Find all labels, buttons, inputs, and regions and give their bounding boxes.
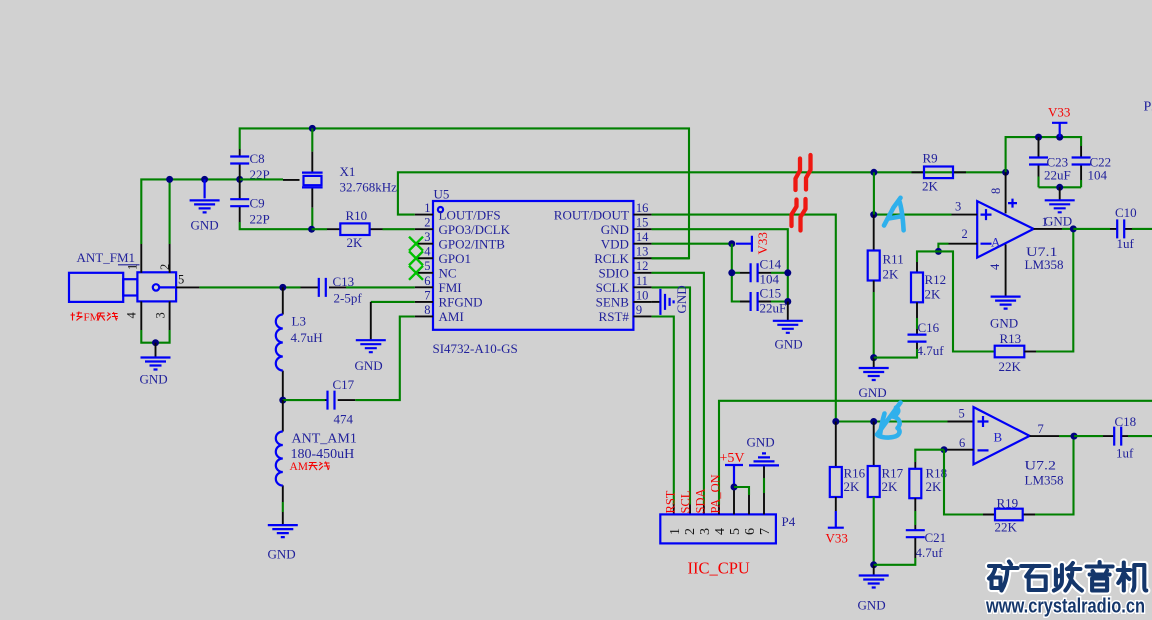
svg-text:RST#: RST# — [599, 309, 630, 324]
wire feedback to R13 — [938, 251, 994, 351]
svg-text:22P: 22P — [250, 212, 270, 227]
svg-text:U5: U5 — [434, 187, 450, 202]
wire inverting input U7.1 — [938, 244, 977, 252]
svg-text:1uf: 1uf — [1117, 236, 1135, 251]
svg-text:2K: 2K — [925, 287, 942, 302]
svg-text:SI4732-A10-GS: SI4732-A10-GS — [433, 341, 518, 356]
wire C16 to ground node — [874, 349, 917, 358]
resistor R18 — [909, 462, 921, 511]
svg-text:www.crystalradio.cn: www.crystalradio.cn — [985, 596, 1145, 618]
svg-text:L3: L3 — [292, 314, 306, 329]
capacitor C18 — [1103, 427, 1128, 446]
junction node C8/C9 at x239.7 — [236, 176, 243, 183]
wire FM ant pins3,4 to ground — [141, 330, 169, 343]
svg-text:ANT_AM1: ANT_AM1 — [292, 432, 357, 447]
ground symbol on FM node — [190, 179, 220, 212]
svg-text:A: A — [991, 235, 1001, 250]
svg-text:GND: GND — [140, 372, 168, 387]
C17 designator — [333, 377, 355, 392]
C23 designator — [1047, 155, 1069, 170]
svg-text:1: 1 — [668, 528, 683, 535]
svg-text:22uF: 22uF — [1044, 168, 1071, 183]
svg-text:22K: 22K — [999, 359, 1022, 374]
wire FM ant pins1,2 to C8/C9 node — [141, 179, 239, 244]
stub wire from C8/C9 node toward crystal — [240, 178, 300, 181]
svg-text:2K: 2K — [926, 479, 943, 494]
svg-text:2K: 2K — [883, 267, 900, 282]
R17 designator — [882, 466, 904, 481]
svg-text:2K: 2K — [922, 179, 939, 194]
wire ANT_AM1 to ground — [282, 502, 284, 525]
wire node to R18 — [915, 450, 944, 462]
svg-text:6: 6 — [424, 274, 430, 288]
svg-text:X1: X1 — [340, 164, 356, 179]
red note text 接FM天线 — [71, 312, 119, 324]
svg-text:RST: RST — [664, 490, 678, 513]
GND label at RFGND — [355, 358, 383, 373]
junction node R12/feedback — [935, 248, 942, 255]
svg-text:C17: C17 — [333, 377, 355, 392]
wire output to C18 — [1074, 435, 1103, 437]
ANT_FM1 pin1 lead up — [140, 244, 142, 273]
connector P4 body — [660, 514, 776, 543]
svg-text:VDD: VDD — [601, 236, 629, 251]
svg-text:4: 4 — [125, 312, 139, 319]
R9 designator — [923, 151, 938, 166]
junction node A input — [870, 211, 877, 218]
U5 part value label SI4732-A10-GS — [433, 341, 518, 356]
ANT_FM1 pin2 lead up — [169, 244, 171, 273]
no-connect X marks on U5 pins 3,4,5 — [409, 237, 423, 280]
junction node opamp V+ supply — [1002, 169, 1009, 176]
C18 designator — [1115, 414, 1137, 429]
power symbol +5V at P4 pin5 — [725, 465, 743, 485]
C8 value 22P — [250, 167, 270, 182]
svg-text:3: 3 — [424, 230, 430, 244]
junction node gnd rail C15 — [784, 298, 791, 305]
svg-text:+5V: +5V — [720, 451, 745, 466]
svg-text:C10: C10 — [1115, 205, 1137, 220]
svg-text:2-5pf: 2-5pf — [334, 291, 363, 306]
wire V+ node to C23/C22/V33 — [1006, 137, 1082, 172]
C10 value 1uf — [1117, 236, 1135, 251]
svg-text:B: B — [994, 430, 1003, 445]
svg-text:SENB: SENB — [596, 295, 630, 310]
wire inverting input U7.2 — [944, 449, 974, 451]
wire C23/C22 bottoms to ground — [1039, 186, 1082, 188]
U5 designator label — [434, 187, 450, 202]
svg-text:16: 16 — [636, 201, 649, 215]
svg-text:8: 8 — [424, 303, 430, 317]
junction node LOUT wire at x873.9 — [870, 169, 877, 176]
ground symbol under R11 — [859, 358, 889, 380]
C13 value 2-5pf — [334, 291, 363, 306]
svg-text:NC: NC — [439, 266, 457, 281]
capacitor C9 — [230, 179, 249, 222]
net label SDA (rotated red) — [694, 488, 708, 513]
red break mark on LOUT wire — [796, 155, 811, 190]
svg-text:SCLK: SCLK — [596, 280, 630, 295]
U7.1 part LM358 — [1025, 257, 1064, 272]
svg-text:2: 2 — [683, 528, 698, 535]
C14 value 104 — [760, 272, 780, 287]
svg-text:R11: R11 — [883, 252, 904, 267]
svg-text:GPO3/DCLK: GPO3/DCLK — [439, 222, 511, 237]
junction node on y179 wire at x169.6 — [166, 176, 173, 183]
inverted ground symbol above P4 pin7 — [749, 453, 779, 465]
op-amp U7.2 — [974, 407, 1030, 464]
R13 designator — [1000, 331, 1022, 346]
svg-text:104: 104 — [1088, 168, 1108, 183]
GND label under ANT_AM1 — [268, 547, 296, 562]
wire LOUT node down to A input — [873, 172, 875, 214]
watermark url www.crystalradio.cn — [985, 596, 1145, 618]
wire C14/C15 right plates to gnd rail — [771, 273, 788, 302]
svg-text:5: 5 — [959, 407, 965, 421]
junction node FM/L3 — [279, 284, 286, 291]
svg-text:P4: P4 — [782, 514, 796, 529]
GND label under R17 — [858, 598, 886, 613]
svg-text:6: 6 — [959, 436, 965, 450]
U7.1 pin4 number (rotated) — [988, 263, 1002, 270]
junction node R17/C21 gnd — [870, 561, 877, 568]
R11 value 2K — [883, 267, 900, 282]
GND label under R11 — [859, 385, 887, 400]
resistor R10 — [327, 223, 383, 235]
GND label above P4 pin7 — [747, 435, 775, 450]
U7.1 pin2 number — [962, 227, 968, 241]
C16 value 4.7uf — [917, 343, 945, 358]
svg-text:1: 1 — [1042, 215, 1048, 229]
GND label under C23/C22 — [1044, 214, 1072, 229]
C13 designator — [333, 274, 355, 289]
svg-text:R13: R13 — [1000, 331, 1022, 346]
C22 value 104 — [1088, 168, 1108, 183]
V33 label at VDD (rotated) — [755, 232, 770, 254]
svg-text:2K: 2K — [882, 479, 899, 494]
svg-text:C18: C18 — [1115, 414, 1137, 429]
svg-text:7: 7 — [424, 288, 430, 302]
junction node U7.1 output — [1070, 225, 1077, 232]
ground symbol under C14/C15 — [773, 302, 803, 333]
GND label under ANT_FM1 — [140, 372, 168, 387]
svg-text:FM: FM — [84, 312, 100, 324]
junction node V33 stem — [1056, 134, 1063, 141]
wire R11 to ground node — [873, 292, 875, 358]
inductor ANT_AM1 — [276, 400, 283, 502]
junction node R17 top — [870, 418, 877, 425]
svg-text:SDA: SDA — [694, 488, 708, 513]
junction node VDD — [728, 240, 735, 247]
C10 designator — [1115, 205, 1137, 220]
svg-text:R19: R19 — [997, 496, 1019, 511]
svg-text:GND: GND — [747, 435, 775, 450]
svg-text:R9: R9 — [923, 151, 938, 166]
junction node U7.2 output — [1071, 433, 1078, 440]
wire U5 pin13 RCLK — [652, 257, 689, 259]
ground symbol at U7.1 pin4 — [991, 297, 1021, 309]
junction node crystal-top on top wire — [309, 125, 316, 132]
net label RST (rotated red) — [664, 490, 678, 513]
junction node C23 top — [1035, 134, 1042, 141]
svg-text:LOUT/DFS: LOUT/DFS — [439, 207, 501, 222]
U7.2 part LM358 — [1025, 473, 1064, 488]
svg-text:V33: V33 — [1048, 105, 1070, 120]
capacitor C23 — [1029, 137, 1048, 187]
wire U5 pin7 RFGND to ground — [371, 302, 415, 340]
svg-text:4: 4 — [713, 528, 728, 535]
svg-text:8: 8 — [989, 188, 1003, 194]
P4 pin7 stub — [763, 466, 765, 515]
resistor R19 — [983, 509, 1035, 521]
svg-text:2K: 2K — [347, 235, 364, 250]
wire U5 pin14 VDD to V33 — [652, 243, 732, 245]
svg-text:4.7uH: 4.7uH — [291, 330, 323, 345]
R18 value 2K — [926, 479, 943, 494]
L3 designator — [292, 314, 306, 329]
U7.2 designator — [1025, 458, 1057, 473]
ANT_FM1 pin4 lead down — [140, 301, 142, 330]
svg-text:6: 6 — [743, 528, 758, 535]
svg-text:474: 474 — [334, 412, 354, 427]
svg-text:AM: AM — [290, 461, 309, 473]
capacitor C13 — [301, 278, 347, 297]
svg-text:5: 5 — [178, 273, 184, 287]
C15 value 22uF — [760, 301, 787, 316]
U7.2 pin6 number — [959, 436, 965, 450]
red note text AM天线 — [290, 461, 331, 473]
C22 designator — [1090, 155, 1112, 170]
power symbol V33 at VDD (rotated) — [736, 236, 752, 252]
junction node C14 left — [728, 269, 735, 276]
R17 value 2K — [882, 479, 899, 494]
ANT_FM1 pin numbers — [125, 264, 185, 319]
svg-text:C14: C14 — [760, 257, 782, 272]
svg-text:V33: V33 — [826, 531, 848, 546]
svg-text:C15: C15 — [760, 286, 782, 301]
svg-text:7: 7 — [758, 528, 773, 535]
C14 designator — [760, 257, 782, 272]
R19 designator — [997, 496, 1019, 511]
power symbol V33 under R16 (inverted) — [828, 511, 844, 528]
svg-text:3: 3 — [698, 528, 713, 535]
svg-text:15: 15 — [636, 216, 649, 230]
svg-text:GND: GND — [601, 222, 629, 237]
wire C10 to right edge — [1132, 228, 1152, 230]
resistor R13 — [995, 346, 1036, 358]
wire node to R12 — [917, 251, 938, 262]
svg-text:IIC_CPU: IIC_CPU — [688, 559, 750, 578]
svg-text:4: 4 — [988, 263, 1002, 270]
svg-text:P2: P2 — [1144, 100, 1152, 115]
svg-text:LM358: LM358 — [1025, 473, 1064, 488]
P4 pin numbers 1-7 (rotated) — [668, 528, 773, 535]
wire ANT_FM1 pin5 to C13 and FMI — [199, 286, 414, 288]
C9 designator — [250, 196, 265, 211]
svg-text:22K: 22K — [995, 520, 1018, 535]
svg-text:10: 10 — [636, 288, 649, 302]
svg-text:3: 3 — [955, 200, 961, 214]
svg-text:9: 9 — [636, 303, 642, 317]
wire C18 to right edge — [1128, 435, 1152, 437]
R10 value 2K — [347, 235, 364, 250]
svg-text:AMI: AMI — [439, 309, 464, 324]
inductor L3 — [276, 287, 283, 400]
V33 label under R16 — [826, 531, 848, 546]
ANT_FM1 pin5 lead — [176, 286, 199, 288]
R10 designator — [346, 208, 368, 223]
junction node L3/C17/AM — [279, 397, 286, 404]
svg-text:7: 7 — [1038, 422, 1044, 436]
V33 label top right — [1048, 105, 1070, 120]
svg-text:V33: V33 — [755, 232, 770, 254]
net label SCL (rotated red) — [679, 491, 693, 514]
svg-text:GPO1: GPO1 — [439, 251, 472, 266]
C21 value 4.7uf — [916, 545, 944, 560]
U7.2 pin5 number — [959, 407, 965, 421]
svg-text:GPO2/INTB: GPO2/INTB — [439, 236, 506, 251]
junction node R16 top — [832, 418, 839, 425]
watermark Chinese logo (crystal radio) — [989, 562, 1146, 591]
ground symbol under C23/C22 — [1045, 187, 1075, 212]
svg-text:C21: C21 — [925, 530, 947, 545]
R11 designator — [883, 252, 904, 267]
U7.1 designator — [1026, 244, 1058, 259]
svg-text:R12: R12 — [925, 272, 947, 287]
capacitor C10 — [1110, 219, 1132, 238]
ANT_FM1 pin3 lead down — [169, 301, 171, 330]
capacitor C8 — [230, 149, 249, 179]
svg-text:4: 4 — [424, 245, 431, 259]
wire VDD branch down to C14/C15 — [732, 244, 740, 302]
wire U5 pin15 GND to decoupling caps — [652, 229, 788, 301]
svg-text:13: 13 — [636, 245, 649, 259]
svg-text:GND: GND — [191, 218, 219, 233]
ground symbol under ANT_FM1 — [141, 343, 171, 370]
svg-text:12: 12 — [636, 259, 649, 273]
R19 value 22K — [995, 520, 1018, 535]
X1 designator — [340, 164, 356, 179]
U7.1 pin3 number — [955, 200, 961, 214]
svg-text:5: 5 — [728, 528, 743, 535]
U7.1 pin1 number — [1042, 215, 1048, 229]
wire U5 pin1 LOUT to top-left corner — [398, 172, 1006, 214]
R13 value 22K — [999, 359, 1022, 374]
C23 value 22uF — [1044, 168, 1071, 183]
svg-text:ANT_FM1: ANT_FM1 — [77, 250, 136, 265]
junction node R10/crystal — [308, 226, 315, 233]
svg-text:32.768kHz: 32.768kHz — [340, 180, 398, 195]
U7.2 pin7 number — [1038, 422, 1044, 436]
IC U5 SI4732-A10-GS body — [433, 201, 633, 330]
GND label at U7.1 pin4 — [990, 316, 1018, 331]
wire R17 to gnd node — [873, 497, 875, 565]
X1 value 32.768kHz — [340, 180, 398, 195]
+5V label — [720, 451, 745, 466]
wire top net to RCLK — [240, 128, 689, 258]
crystal X1 bottom wire to node — [311, 208, 313, 229]
svg-text:R10: R10 — [346, 208, 368, 223]
svg-text:GND: GND — [775, 337, 803, 352]
svg-text:GND: GND — [1044, 214, 1072, 229]
svg-text:RFGND: RFGND — [439, 295, 483, 310]
R12 designator — [925, 272, 947, 287]
resistor R11 — [868, 215, 880, 292]
svg-text:C16: C16 — [918, 320, 940, 335]
svg-text:GND: GND — [990, 316, 1018, 331]
GND label for FM node ground — [191, 218, 219, 233]
svg-text:5: 5 — [424, 259, 430, 273]
svg-text:1uf: 1uf — [1116, 446, 1134, 461]
ANT_AM1 designator — [292, 432, 357, 447]
R12 value 2K — [925, 287, 942, 302]
svg-text:FMI: FMI — [439, 280, 462, 295]
GND label at SENB (rotated) — [674, 285, 689, 313]
power symbol V33 top right — [1052, 123, 1067, 137]
wire R12 to C16 — [916, 318, 918, 329]
svg-text:U7.2: U7.2 — [1025, 458, 1057, 473]
svg-text:SDIO: SDIO — [599, 266, 629, 281]
ground symbol at U5 pin10 SENB (rotated) — [652, 289, 674, 315]
R18 designator — [926, 466, 948, 481]
cyan handwritten B scribble — [877, 403, 901, 438]
svg-text:C9: C9 — [250, 196, 265, 211]
ANT_FM1 designator label — [77, 250, 140, 265]
svg-text:2K: 2K — [844, 479, 861, 494]
crystal X1 — [302, 128, 323, 207]
svg-text:GND: GND — [268, 547, 296, 562]
wire feedback to R19 — [944, 450, 983, 515]
ANT_AM1 value 180-450uH — [291, 447, 355, 462]
junction node R11/C16 gnd — [870, 354, 877, 361]
svg-text:RCLK: RCLK — [594, 251, 629, 266]
svg-text:GND: GND — [355, 358, 383, 373]
P2 partial label at right edge — [1144, 100, 1152, 115]
wire R18 to C21 — [914, 511, 916, 525]
svg-text:180-450uH: 180-450uH — [291, 447, 355, 462]
L3 value 4.7uH — [291, 330, 323, 345]
junction node caps gnd — [1056, 184, 1063, 191]
U7.1 pin8 number (rotated) — [989, 188, 1003, 194]
wire R10 to U5 pin2 — [312, 228, 415, 230]
C8 designator — [250, 151, 265, 166]
R9 value 2K — [922, 179, 939, 194]
wire output to C10 — [1073, 228, 1110, 230]
wire U5 pin16 ROUT to lower opamp — [652, 215, 836, 422]
C17 value 474 — [334, 412, 354, 427]
capacitor C15 — [740, 292, 771, 311]
svg-text:4.7uf: 4.7uf — [916, 545, 944, 560]
svg-text:ROUT/DOUT: ROUT/DOUT — [554, 207, 629, 222]
svg-text:SCL: SCL — [679, 491, 693, 514]
R16 designator — [844, 466, 866, 481]
resistor R16 — [830, 422, 842, 512]
op-amp U7.1 — [977, 172, 1033, 296]
capacitor C22 — [1072, 146, 1091, 187]
svg-text:2: 2 — [424, 216, 430, 230]
svg-text:C13: C13 — [333, 274, 355, 289]
net label PA_ON (rotated red) — [709, 474, 723, 513]
U7.2 output lead — [1030, 435, 1073, 437]
svg-text:1: 1 — [126, 264, 140, 270]
svg-text:GND: GND — [859, 385, 887, 400]
svg-text:22uF: 22uF — [760, 301, 787, 316]
ground symbol under R17 — [859, 565, 889, 588]
svg-text:11: 11 — [636, 274, 648, 288]
P4 pin5 stub — [733, 487, 735, 514]
wire R13 to output node — [1036, 229, 1073, 352]
wire U5 pin11 SCLK to P4 pin2 — [652, 287, 690, 514]
